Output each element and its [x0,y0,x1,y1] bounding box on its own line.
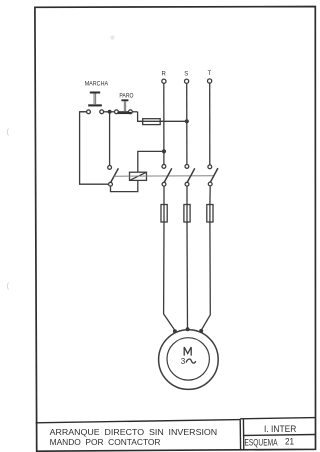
wire: fuse F3 to motor terminal V [186,222,189,328]
wire: holding contact bottom to coil bottom [111,180,138,191]
terminal S [185,79,189,83]
pushbutton MARCHA actuator [88,93,102,106]
fuse F1 (control circuit) [143,119,161,125]
svg-text:3: 3 [181,357,185,366]
motor label ~ (sine wave) [186,359,196,363]
main contact K1-L3 (phase T) [208,165,218,186]
main contact K1-L2 (phase S) [185,165,195,187]
title block text [50,424,297,448]
wire: phase S vertical drop [186,83,188,164]
wire: node to holding contact top [109,114,111,166]
svg-text:PARO: PARO [119,92,133,99]
fuse F2 (phase R) [161,205,167,223]
wire: phase R vertical drop [163,83,165,164]
wire: control row segments [80,111,138,113]
pushbutton MARCHA contact terminals [87,110,91,114]
junction: tap on phase S [185,119,189,123]
svg-text:21: 21 [285,437,294,447]
motor terminal V junction [186,327,190,331]
pushbutton PARO bridge (closed contact) [117,112,131,114]
svg-text:R: R [162,71,167,77]
motor terminal U junction [173,329,177,333]
wire: fuse to phase S tap [143,120,187,122]
motor label M [184,347,191,356]
terminal R [162,79,166,83]
title block lines [36,418,316,451]
motor M1 3-phase [159,330,219,390]
wire: S contact to fuse F3 [186,186,188,204]
wire: T contact to fuse F4 [209,186,211,205]
junction: tap on phase R [162,149,166,153]
svg-text:MARCHA: MARCHA [85,81,109,88]
main contact K1-L1 (phase R) [162,165,172,187]
junction: MARCHA / holding contact node [108,110,112,114]
contactor coil K1 [130,172,147,180]
motor terminal W junction [199,329,203,333]
svg-text:I. INTER: I. INTER [264,424,297,434]
wire: phase T vertical drop [209,83,211,165]
svg-text:ARRANQUE DIRECTO SIN INVERSION: ARRANQUE DIRECTO SIN INVERSION [50,428,218,437]
terminal T [208,79,212,83]
svg-text:MANDO POR CONTACTOR: MANDO POR CONTACTOR [50,438,161,447]
wire: fuse F2 to motor terminal U [164,222,175,330]
wire: left branch (MARCHA left to holding contact) [80,112,109,184]
pushbutton PARO contact terminals [115,110,119,114]
wire: R contact to fuse F2 [163,186,165,204]
wire: coil top to phase R tap [138,151,164,172]
fuse F4 (phase T) [207,205,213,223]
pushbutton PARO actuator [121,100,128,111]
svg-text:S: S [184,71,188,77]
wire: fuse F4 to motor terminal W [201,222,210,330]
wire: PARO to fuse step-down [138,112,143,122]
mechanical linkage line of contactor [114,175,214,178]
svg-text:ESQUEMA: ESQUEMA [245,438,278,448]
svg-text:T: T [208,71,212,77]
fuse F3 (phase S) [184,205,190,223]
auxiliary holding contact K1 (NO) [108,166,119,187]
